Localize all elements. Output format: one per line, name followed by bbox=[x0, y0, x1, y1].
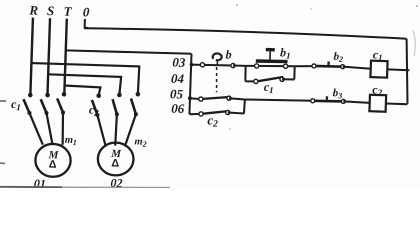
svg-text:Δ: Δ bbox=[48, 158, 56, 170]
contactor c2 pole 3 bbox=[130, 92, 140, 117]
wire line 0 drop bbox=[85, 19, 89, 28]
motor M1 bbox=[35, 143, 71, 177]
wire tap T to c2 pole1 bbox=[64, 85, 100, 95]
wire control tap from T bbox=[66, 50, 192, 55]
scan artifact page curl top right bbox=[413, 30, 415, 56]
wire M1 lead 3 bbox=[62, 113, 64, 145]
wire row03 branch to b2 bbox=[295, 65, 314, 66]
svg-text:S: S bbox=[47, 3, 55, 18]
wire row05 rail stub bbox=[190, 97, 201, 100]
wire control left rail bbox=[189, 54, 191, 115]
wire M1 lead 1 bbox=[28, 113, 43, 145]
wire M2 lead 3 bbox=[125, 114, 136, 147]
wire phase R vertical bbox=[30, 18, 33, 95]
wire M2 lead 1 bbox=[96, 115, 106, 146]
wire M2 lead 2 bbox=[115, 114, 117, 145]
motor M2 bbox=[97, 142, 134, 176]
wire phase T vertical bbox=[64, 19, 66, 94]
wire b3 to coil c2 bbox=[343, 101, 369, 102]
wire coil c2 to rail bbox=[386, 103, 408, 106]
wire b2 to coil c1 bbox=[343, 67, 371, 69]
coil c2 bbox=[369, 95, 386, 112]
contact b2 (overload NC) bbox=[312, 61, 345, 69]
svg-text:Δ: Δ bbox=[111, 157, 119, 169]
contactor c1 pole 1 bbox=[23, 93, 33, 116]
wire phase S vertical bbox=[48, 18, 51, 94]
svg-text:0: 0 bbox=[83, 4, 90, 19]
contact b3 (overload NC) bbox=[311, 96, 346, 104]
svg-text:02: 02 bbox=[110, 176, 122, 188]
wire row03 b to branch bbox=[233, 64, 246, 67]
contactor c1 pole 2 bbox=[40, 92, 50, 115]
wire M1 lead 2 bbox=[45, 113, 53, 145]
svg-text:03: 03 bbox=[172, 54, 186, 69]
svg-text:06: 06 bbox=[171, 101, 185, 116]
wire coil c1 to rail bbox=[387, 68, 409, 71]
wire row03 rail to b bbox=[191, 63, 202, 66]
contactor c1 pole 3 bbox=[57, 92, 67, 115]
wire branch right rise bbox=[293, 66, 296, 79]
wire row06 to join bbox=[228, 113, 244, 114]
coil c1 bbox=[370, 61, 387, 78]
wire tap R to c2 pole3 bbox=[31, 63, 140, 94]
wire 0 top rail (curved) bbox=[84, 28, 406, 39]
contact c2 row06 bbox=[199, 109, 230, 117]
svg-text:04: 04 bbox=[171, 71, 185, 86]
wire right rail bbox=[406, 39, 409, 104]
pushbutton b1 (start) bbox=[246, 49, 296, 69]
svg-text:05: 05 bbox=[170, 86, 184, 101]
contactor c2 pole 2 bbox=[112, 92, 122, 116]
contact c2 row05 bbox=[199, 95, 231, 102]
scan artifact bottom smudge bbox=[0, 186, 62, 188]
contact c1 holding (row 04) bbox=[245, 76, 294, 85]
pushbutton b (stop) bbox=[200, 53, 235, 68]
contactor c2 pole 1 bbox=[91, 93, 101, 117]
wire join to b3 bbox=[245, 99, 313, 102]
mechanical link dashed bbox=[216, 67, 218, 92]
wire tap S to c2 pole2 bbox=[48, 74, 122, 94]
scan artifact left edge ticks bbox=[0, 100, 6, 102]
wire row06 rail stub bbox=[189, 114, 201, 115]
svg-text:R: R bbox=[28, 2, 38, 17]
scan specks bbox=[236, 4, 238, 6]
svg-text:b: b bbox=[225, 47, 231, 61]
wire row05 to join bbox=[229, 98, 245, 99]
wire join rows 05-06 bbox=[243, 99, 246, 113]
wire branch left drop bbox=[244, 66, 247, 81]
